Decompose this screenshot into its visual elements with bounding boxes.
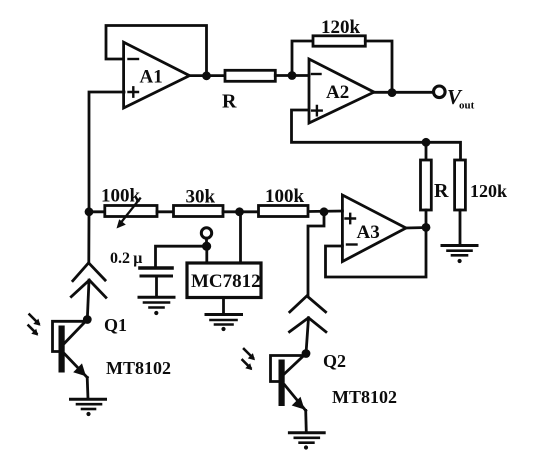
wire 30k to middle junction [223,210,259,213]
wire node left to capacitor [156,246,207,266]
wire junction down to Q2 branch [308,212,324,296]
ground (below MC7812) [206,315,242,332]
node rail to resistor R junction [422,138,431,147]
wire 100k to 30k [157,210,174,213]
resistor R (vertical) [421,160,450,210]
svg-text:100k: 100k [101,186,141,207]
resistor 100k (right) [259,186,309,217]
wire Q2 emitter to ground [304,411,307,433]
svg-text:0.2 μ: 0.2 μ [110,250,142,267]
op-amp A2 [309,59,374,123]
wire vertical R to A3 output junction [425,210,428,228]
resistor 120k (A2 feedback) [313,17,365,46]
node Q1 collector junction [83,315,92,324]
node MC7812 input junction [202,242,211,251]
ground (below capacitor) [139,297,174,315]
svg-text:R: R [222,91,237,113]
svg-text:Q1: Q1 [104,315,127,335]
wire MC7812 to ground [222,298,225,314]
svg-text:A1: A1 [140,67,163,88]
op-amp A3 [342,195,406,262]
wire Q1 emitter to ground [86,377,90,399]
light chevrons above Q1 [71,263,106,298]
wire 120k feedback right leg [365,41,392,93]
resistor 100k variable (left) [101,186,157,229]
wire left junction to 100k [89,210,105,213]
svg-text:120k: 120k [470,181,507,201]
wire terminal to node [205,238,208,246]
wire chevrons to Q1 collector [87,280,89,319]
wire A2 output to Vout terminal [374,91,434,94]
wire 100k to A3 non-inverting input [308,210,342,213]
wire left rail to Q1 light chevrons [87,212,90,263]
resistor 30k [174,187,224,217]
terminal Vout [434,85,475,112]
svg-text:A2: A2 [326,82,349,103]
node Q2 collector junction [302,349,311,358]
wire rail junction to vertical resistor R [425,142,428,160]
node resistor row right junction [320,207,329,216]
resistor 120k (vertical, right) [455,160,507,210]
wire chevrons to Q2 collector [306,318,309,354]
wire left rail from A1 non-inverting input [89,92,124,212]
svg-text:out: out [459,100,475,112]
svg-text:120k: 120k [321,17,361,38]
svg-text:A3: A3 [357,222,380,243]
wire 120k feedback left leg [292,41,313,76]
phototransistor Q1 MT8102 [29,315,172,379]
wire 120k vertical to ground [459,210,462,245]
ground (below Q2) [289,433,324,450]
svg-text:Q2: Q2 [323,351,346,371]
wire R to A2 inverting input [275,74,309,77]
svg-text:100k: 100k [265,186,305,207]
capacitor 0.2u [110,250,172,276]
svg-text:30k: 30k [186,187,216,208]
phototransistor Q2 MT8102 [243,349,398,411]
node A2 output junction [388,88,397,97]
ground (below 120k) [442,246,477,264]
wire A1 feedback loop (output to inverting input) [106,26,207,77]
light chevrons above Q2 [290,296,326,332]
wire capacitor to ground [155,276,158,296]
node A2 inverting input junction [288,71,297,80]
terminal (supply input above MC7812) [201,228,211,238]
wire A2 non-inverting input to bottom rail [292,110,461,160]
op-amp A1 [124,42,190,108]
wire A1 output to resistor R [190,74,226,77]
svg-text:R: R [434,180,449,202]
resistor R (between A1 and A2) [222,70,275,112]
svg-text:MT8102: MT8102 [332,387,397,407]
wire A3 output to junction [406,226,426,229]
node resistor row middle junction [235,207,244,216]
svg-text:MT8102: MT8102 [106,358,171,378]
node A3 output junction [422,223,431,232]
ground (below Q1) [71,399,106,416]
svg-text:MC7812: MC7812 [191,271,261,292]
node resistor row left junction [85,207,94,216]
wire node down to MC7812 box [205,246,208,263]
wire middle junction down to MC7812 [239,212,242,263]
node A1 output junction [202,71,211,80]
wire A3 feedback loop (output to inverting input) [326,227,427,277]
voltage regulator MC7812 [187,263,261,298]
